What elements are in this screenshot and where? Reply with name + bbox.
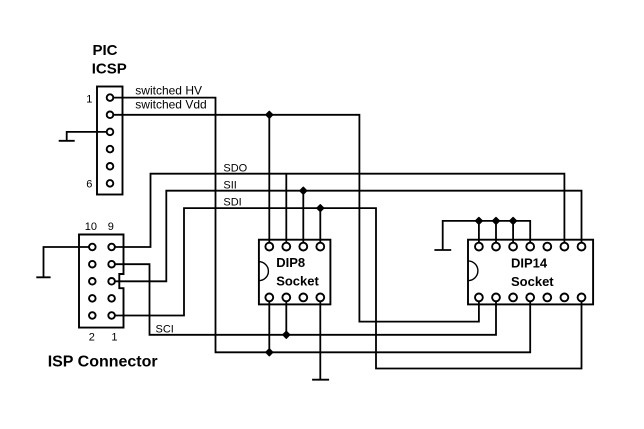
svg-text:Socket: Socket	[276, 274, 319, 289]
svg-text:10: 10	[85, 221, 97, 233]
svg-text:1: 1	[86, 93, 92, 105]
svg-text:DIP8: DIP8	[276, 255, 305, 270]
svg-text:1: 1	[111, 332, 117, 344]
svg-text:switched Vdd: switched Vdd	[135, 97, 206, 111]
svg-text:switched HV: switched HV	[135, 83, 202, 97]
svg-text:6: 6	[86, 179, 92, 191]
svg-text:ICSP: ICSP	[92, 60, 127, 77]
svg-text:SCI: SCI	[156, 324, 174, 336]
svg-text:SII: SII	[223, 179, 236, 191]
svg-text:PIC: PIC	[93, 42, 118, 59]
svg-text:9: 9	[108, 221, 114, 233]
svg-text:DIP14: DIP14	[511, 256, 548, 271]
svg-text:Socket: Socket	[511, 274, 554, 289]
svg-text:SDI: SDI	[223, 197, 241, 209]
svg-text:ISP Connector: ISP Connector	[48, 354, 158, 371]
svg-text:SDO: SDO	[223, 163, 247, 175]
svg-text:2: 2	[89, 332, 95, 344]
